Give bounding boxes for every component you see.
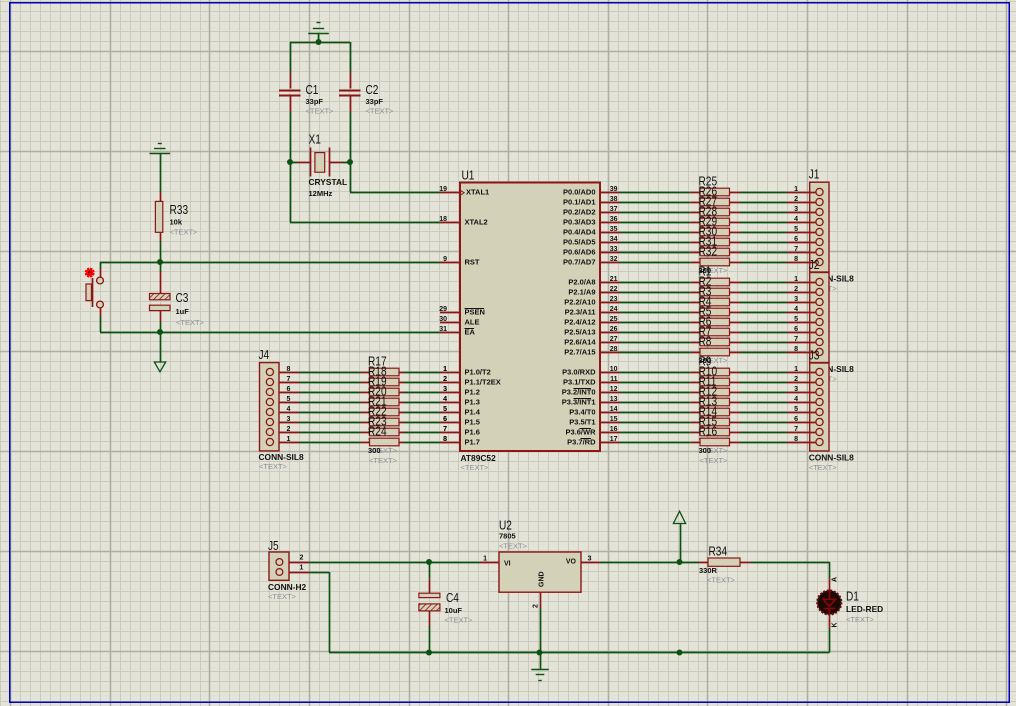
svg-text:P1.2: P1.2 xyxy=(465,388,480,397)
svg-text:P0.4/AD4: P0.4/AD4 xyxy=(563,228,596,237)
svg-text:26: 26 xyxy=(610,326,618,333)
svg-text:5: 5 xyxy=(443,406,447,413)
svg-text:P0.1/AD1: P0.1/AD1 xyxy=(563,198,596,207)
svg-text:CONN-H2: CONN-H2 xyxy=(268,582,306,592)
svg-text:CRYSTAL: CRYSTAL xyxy=(309,177,348,187)
svg-text:J1: J1 xyxy=(809,168,820,182)
svg-text:J5: J5 xyxy=(268,539,279,553)
svg-text:39: 39 xyxy=(610,186,618,193)
svg-text:28: 28 xyxy=(610,346,618,353)
svg-text:31: 31 xyxy=(439,326,447,333)
svg-text:3: 3 xyxy=(287,416,291,423)
svg-text:<TEXT>: <TEXT> xyxy=(170,228,199,237)
svg-text:1: 1 xyxy=(443,366,447,373)
svg-text:4: 4 xyxy=(794,396,798,403)
svg-text:1: 1 xyxy=(300,565,304,572)
svg-text:P1.4: P1.4 xyxy=(465,408,481,417)
svg-text:J2: J2 xyxy=(809,258,820,272)
svg-text:P3.0/RXD: P3.0/RXD xyxy=(562,368,596,377)
svg-text:P0.2/AD2: P0.2/AD2 xyxy=(563,208,596,217)
svg-text:C4: C4 xyxy=(446,591,459,605)
svg-text:1: 1 xyxy=(287,436,291,443)
svg-text:4: 4 xyxy=(794,216,798,223)
svg-text:1: 1 xyxy=(794,276,798,283)
svg-text:4: 4 xyxy=(287,406,291,413)
svg-text:P1.6: P1.6 xyxy=(465,428,480,437)
svg-text:EA: EA xyxy=(465,328,476,337)
svg-text:C2: C2 xyxy=(366,83,379,97)
svg-text:23: 23 xyxy=(610,296,618,303)
svg-text:<TEXT>: <TEXT> xyxy=(369,456,398,465)
svg-text:2: 2 xyxy=(794,286,798,293)
svg-text:C3: C3 xyxy=(176,291,189,305)
svg-text:3: 3 xyxy=(443,386,447,393)
svg-text:<TEXT>: <TEXT> xyxy=(268,592,297,601)
svg-text:P3.5/T1: P3.5/T1 xyxy=(569,418,595,427)
svg-text:P1.7: P1.7 xyxy=(465,438,480,447)
svg-text:P2.2/A10: P2.2/A10 xyxy=(564,298,595,307)
svg-text:VO: VO xyxy=(566,559,577,566)
svg-text:1: 1 xyxy=(794,186,798,193)
svg-text:14: 14 xyxy=(610,406,618,413)
svg-text:300: 300 xyxy=(699,446,712,455)
svg-text:4: 4 xyxy=(794,306,798,313)
svg-text:LED-RED: LED-RED xyxy=(846,604,883,614)
svg-text:6: 6 xyxy=(443,416,447,423)
svg-text:R34: R34 xyxy=(709,544,728,558)
svg-text:10k: 10k xyxy=(170,218,183,227)
svg-text:10uF: 10uF xyxy=(445,606,463,615)
svg-text:R8: R8 xyxy=(699,334,712,348)
svg-text:7: 7 xyxy=(794,246,798,253)
svg-text:P3.1/TXD: P3.1/TXD xyxy=(563,378,596,387)
svg-text:6: 6 xyxy=(794,236,798,243)
svg-text:<TEXT>: <TEXT> xyxy=(707,576,736,585)
svg-text:P0.0/AD0: P0.0/AD0 xyxy=(563,188,596,197)
svg-text:<TEXT>: <TEXT> xyxy=(461,463,490,472)
svg-text:7805: 7805 xyxy=(499,531,516,540)
svg-text:10: 10 xyxy=(610,366,618,373)
svg-text:C1: C1 xyxy=(306,83,319,97)
svg-text:CONN-SIL8: CONN-SIL8 xyxy=(809,453,854,463)
svg-text:2: 2 xyxy=(300,555,304,562)
svg-text:3: 3 xyxy=(794,206,798,213)
svg-text:11: 11 xyxy=(610,376,618,383)
svg-text:33: 33 xyxy=(610,246,618,253)
svg-text:<TEXT>: <TEXT> xyxy=(846,615,875,624)
svg-text:300: 300 xyxy=(368,446,381,455)
svg-text:<TEXT>: <TEXT> xyxy=(445,616,474,625)
svg-text:35: 35 xyxy=(610,226,618,233)
svg-text:XTAL2: XTAL2 xyxy=(465,218,488,227)
svg-text:<TEXT>: <TEXT> xyxy=(700,456,729,465)
svg-text:P2.7/A15: P2.7/A15 xyxy=(564,348,595,357)
svg-text:2: 2 xyxy=(794,376,798,383)
svg-text:24: 24 xyxy=(610,306,618,313)
svg-text:VI: VI xyxy=(504,561,511,568)
svg-text:RST: RST xyxy=(465,258,480,267)
svg-text:<TEXT>: <TEXT> xyxy=(499,541,528,550)
svg-text:P2.1/A9: P2.1/A9 xyxy=(568,288,595,297)
svg-text:R33: R33 xyxy=(170,203,189,217)
svg-text:<TEXT>: <TEXT> xyxy=(176,318,205,327)
svg-text:7: 7 xyxy=(794,426,798,433)
svg-text:8: 8 xyxy=(794,436,798,443)
svg-text:6: 6 xyxy=(794,326,798,333)
svg-text:<TEXT>: <TEXT> xyxy=(809,463,838,472)
svg-text:3: 3 xyxy=(588,556,592,563)
svg-text:9: 9 xyxy=(443,256,447,263)
svg-text:<TEXT>: <TEXT> xyxy=(259,462,288,471)
svg-text:5: 5 xyxy=(794,316,798,323)
svg-text:P2.6/A14: P2.6/A14 xyxy=(564,338,596,347)
svg-text:2: 2 xyxy=(287,426,291,433)
svg-text:U1: U1 xyxy=(462,168,475,182)
svg-text:16: 16 xyxy=(610,426,618,433)
svg-text:D1: D1 xyxy=(846,589,859,603)
svg-text:33pF: 33pF xyxy=(306,97,324,106)
svg-text:1: 1 xyxy=(483,556,487,563)
svg-text:22: 22 xyxy=(610,286,618,293)
svg-text:4: 4 xyxy=(443,396,447,403)
svg-text:3: 3 xyxy=(794,386,798,393)
svg-text:R32: R32 xyxy=(699,244,718,258)
svg-text:P2.0/A8: P2.0/A8 xyxy=(568,278,595,287)
svg-text:8: 8 xyxy=(443,436,447,443)
svg-text:6: 6 xyxy=(287,386,291,393)
svg-text:P3.7/RD: P3.7/RD xyxy=(567,438,596,447)
svg-text:27: 27 xyxy=(610,336,618,343)
svg-text:P2.5/A13: P2.5/A13 xyxy=(564,328,595,337)
svg-text:XTAL1: XTAL1 xyxy=(466,188,489,197)
svg-text:2: 2 xyxy=(533,604,540,608)
svg-text:7: 7 xyxy=(287,376,291,383)
svg-text:8: 8 xyxy=(794,346,798,353)
svg-text:X1: X1 xyxy=(309,132,321,146)
svg-text:A: A xyxy=(832,577,839,582)
svg-text:7: 7 xyxy=(794,336,798,343)
svg-text:P1.0/T2: P1.0/T2 xyxy=(465,368,491,377)
svg-text:P2.4/A12: P2.4/A12 xyxy=(564,318,595,327)
svg-text:P3.4/T0: P3.4/T0 xyxy=(569,408,595,417)
svg-text:<TEXT>: <TEXT> xyxy=(306,107,335,116)
svg-text:P3.6/WR: P3.6/WR xyxy=(565,428,596,437)
svg-text:6: 6 xyxy=(794,416,798,423)
svg-text:P0.3/AD3: P0.3/AD3 xyxy=(563,218,596,227)
svg-text:P2.3/A11: P2.3/A11 xyxy=(565,308,596,317)
svg-text:2: 2 xyxy=(794,196,798,203)
svg-text:AT89C52: AT89C52 xyxy=(461,453,497,463)
svg-text:P1.1/T2EX: P1.1/T2EX xyxy=(465,378,501,387)
svg-text:330R: 330R xyxy=(699,566,718,575)
svg-text:P3.3/INT1: P3.3/INT1 xyxy=(562,398,596,407)
svg-text:25: 25 xyxy=(610,316,618,323)
svg-text:19: 19 xyxy=(439,186,447,193)
svg-text:5: 5 xyxy=(287,396,291,403)
svg-text:PSEN: PSEN xyxy=(465,308,485,317)
svg-text:12MHz: 12MHz xyxy=(309,189,333,198)
svg-text:21: 21 xyxy=(610,276,618,283)
svg-text:J3: J3 xyxy=(809,348,820,362)
svg-text:38: 38 xyxy=(610,196,618,203)
svg-text:5: 5 xyxy=(794,406,798,413)
svg-text:P1.3: P1.3 xyxy=(465,398,480,407)
svg-text:K: K xyxy=(832,622,839,627)
svg-text:15: 15 xyxy=(610,416,618,423)
svg-text:3: 3 xyxy=(794,296,798,303)
svg-text:ALE: ALE xyxy=(465,318,480,327)
svg-text:34: 34 xyxy=(610,236,618,243)
svg-text:5: 5 xyxy=(794,226,798,233)
svg-text:8: 8 xyxy=(794,256,798,263)
svg-text:P0.7/AD7: P0.7/AD7 xyxy=(563,258,596,267)
svg-text:2: 2 xyxy=(443,376,447,383)
svg-text:12: 12 xyxy=(610,386,618,393)
svg-text:29: 29 xyxy=(439,306,447,313)
svg-text:7: 7 xyxy=(443,426,447,433)
svg-text:CONN-SIL8: CONN-SIL8 xyxy=(259,452,304,462)
svg-text:1uF: 1uF xyxy=(176,307,190,316)
svg-text:J4: J4 xyxy=(259,348,270,362)
svg-text:37: 37 xyxy=(610,206,618,213)
svg-text:8: 8 xyxy=(287,366,291,373)
svg-text:1: 1 xyxy=(794,366,798,373)
svg-text:GND: GND xyxy=(539,571,546,587)
svg-text:P0.5/AD5: P0.5/AD5 xyxy=(563,238,596,247)
svg-text:32: 32 xyxy=(610,256,618,263)
svg-text:P0.6/AD6: P0.6/AD6 xyxy=(563,248,596,257)
svg-text:R16: R16 xyxy=(699,424,718,438)
svg-text:36: 36 xyxy=(610,216,618,223)
svg-text:33pF: 33pF xyxy=(366,97,384,106)
svg-text:<TEXT>: <TEXT> xyxy=(366,107,395,116)
svg-text:R24: R24 xyxy=(368,424,387,438)
svg-text:18: 18 xyxy=(439,216,447,223)
svg-text:P1.5: P1.5 xyxy=(465,418,480,427)
svg-text:30: 30 xyxy=(439,316,447,323)
svg-text:17: 17 xyxy=(610,436,618,443)
svg-text:13: 13 xyxy=(610,396,618,403)
svg-text:P3.2/INT0: P3.2/INT0 xyxy=(562,388,596,397)
